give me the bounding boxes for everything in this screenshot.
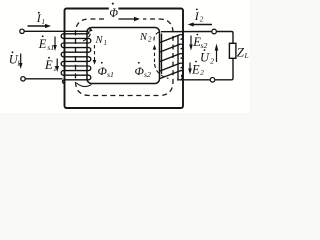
winding N2 (secondary coil on right leg)	[160, 34, 183, 80]
main flux arrow	[119, 18, 135, 20]
wire primary bottom	[26, 78, 63, 80]
svg-text:1: 1	[104, 39, 108, 47]
svg-text:L: L	[244, 51, 249, 60]
svg-text:2: 2	[148, 36, 152, 44]
svg-text:s1: s1	[107, 70, 114, 79]
transformer core outer outline	[65, 9, 184, 109]
wire primary top	[25, 30, 89, 32]
svg-text:N: N	[95, 35, 104, 46]
svg-text:s1: s1	[47, 43, 54, 52]
svg-text:2: 2	[210, 57, 214, 66]
wire secondary top	[161, 31, 211, 33]
leakage flux phi-s1 dashed loop with arrow	[77, 31, 95, 87]
main flux dashed loop	[76, 19, 174, 96]
svg-text:U: U	[200, 50, 210, 64]
svg-text:2: 2	[200, 69, 204, 77]
winding N1 (primary coil on left leg)	[61, 31, 91, 83]
wire secondary top right to load	[217, 32, 233, 44]
svg-text:Φ: Φ	[135, 66, 145, 78]
terminal primary bottom	[21, 77, 25, 81]
load resistor ZL	[229, 43, 236, 58]
terminal secondary top	[212, 29, 217, 34]
svg-text:1: 1	[42, 18, 46, 26]
transformer core window outline	[87, 28, 160, 84]
svg-text:s2: s2	[201, 41, 208, 50]
svg-text:N: N	[139, 32, 148, 43]
terminal primary top	[20, 29, 24, 33]
wire load bottom	[215, 58, 233, 80]
leakage flux phi-s2 dashed loop with arrow	[154, 32, 169, 79]
svg-text:2: 2	[200, 16, 204, 24]
wire secondary bottom	[177, 79, 210, 81]
terminal secondary bottom	[210, 78, 215, 83]
svg-text:E: E	[38, 37, 47, 51]
svg-text:Φ: Φ	[109, 6, 118, 20]
flux label background gap	[109, 2, 119, 17]
svg-text:E: E	[44, 58, 53, 72]
svg-text:E: E	[191, 62, 200, 76]
svg-text:Φ: Φ	[98, 66, 108, 78]
svg-text:s2: s2	[144, 70, 151, 79]
